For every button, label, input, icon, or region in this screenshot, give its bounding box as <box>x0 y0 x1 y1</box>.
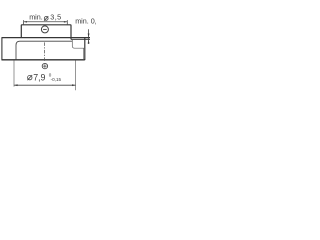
svg-text:7,9: 7,9 <box>33 72 45 82</box>
svg-text:min.: min. <box>29 12 43 21</box>
svg-text:min. 0,: min. 0, <box>75 16 96 25</box>
svg-text:-0,15: -0,15 <box>51 77 62 82</box>
svg-text:3,5: 3,5 <box>50 13 61 22</box>
